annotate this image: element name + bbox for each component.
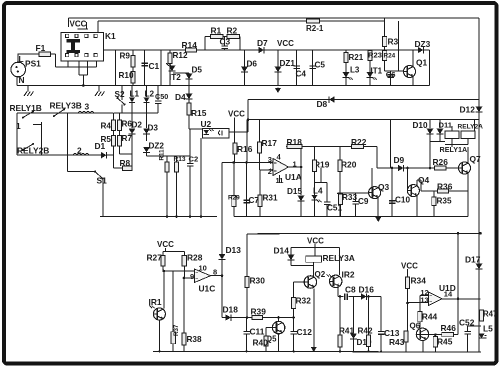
svg-text:RELY3A: RELY3A [323, 253, 355, 263]
svg-text:IR2: IR2 [342, 270, 355, 280]
svg-text:3: 3 [85, 102, 90, 112]
svg-text:DZ1: DZ1 [280, 59, 296, 68]
svg-text:C9: C9 [358, 197, 369, 206]
svg-text:RELY2B: RELY2B [17, 146, 49, 156]
svg-text:R2: R2 [227, 26, 238, 36]
svg-text:D8: D8 [317, 99, 328, 109]
svg-text:VCC: VCC [157, 240, 174, 249]
svg-text:R44: R44 [422, 312, 438, 322]
svg-text:R11: R11 [159, 149, 166, 161]
svg-text:R8: R8 [120, 158, 131, 168]
svg-text:R35: R35 [437, 197, 452, 206]
svg-text:1: 1 [16, 121, 21, 131]
svg-text:R4: R4 [101, 122, 112, 131]
svg-text:C2: C2 [189, 155, 199, 164]
svg-text:R7: R7 [122, 134, 133, 143]
svg-text:D7: D7 [257, 38, 268, 48]
svg-text:D14: D14 [274, 246, 290, 256]
svg-text:L2: L2 [145, 90, 155, 99]
svg-text:C51: C51 [327, 204, 342, 213]
svg-text:R39: R39 [251, 307, 267, 317]
svg-text:2: 2 [268, 167, 272, 176]
svg-text:L: L [19, 54, 24, 64]
svg-text:R26: R26 [433, 157, 449, 167]
svg-text:D13: D13 [226, 245, 242, 255]
svg-text:9: 9 [190, 272, 194, 281]
svg-text:D5: D5 [192, 65, 203, 74]
svg-text:R40: R40 [253, 338, 269, 348]
svg-text:R28: R28 [187, 253, 203, 263]
svg-text:L3: L3 [350, 66, 360, 75]
svg-text:D12: D12 [460, 105, 476, 115]
svg-text:VCC: VCC [70, 19, 87, 28]
svg-text:R15: R15 [191, 108, 207, 118]
svg-text:D10: D10 [413, 121, 428, 130]
svg-text:Q7: Q7 [470, 154, 482, 164]
svg-text:R34: R34 [411, 276, 427, 286]
svg-text:VCC: VCC [401, 261, 418, 270]
svg-text:R17: R17 [262, 138, 278, 148]
svg-text:C12: C12 [297, 327, 313, 337]
svg-text:R2-1: R2-1 [306, 24, 324, 33]
svg-text:D17: D17 [465, 255, 481, 265]
svg-text:R38: R38 [187, 335, 202, 344]
svg-text:C4: C4 [296, 70, 307, 79]
svg-text:S1: S1 [97, 176, 108, 186]
svg-text:Q1: Q1 [416, 58, 428, 68]
svg-text:D2: D2 [132, 121, 143, 130]
svg-text:C8: C8 [345, 285, 356, 295]
svg-text:R3: R3 [388, 36, 399, 46]
svg-text:RELY2A: RELY2A [458, 124, 484, 131]
svg-text:C5: C5 [315, 61, 326, 70]
svg-text:Q2: Q2 [315, 270, 326, 279]
svg-text:R16: R16 [237, 144, 253, 154]
svg-text:R46: R46 [441, 323, 457, 333]
svg-text:R31: R31 [263, 194, 278, 203]
svg-text:RELY1A: RELY1A [440, 145, 468, 154]
svg-text:2: 2 [77, 146, 82, 156]
svg-text:R36: R36 [437, 182, 453, 192]
svg-text:R47: R47 [483, 310, 497, 319]
svg-text:R14: R14 [182, 40, 198, 50]
svg-text:C50: C50 [155, 92, 168, 101]
svg-text:N: N [19, 75, 25, 85]
svg-text:S2: S2 [115, 90, 125, 99]
svg-text:RELY3B: RELY3B [50, 101, 82, 111]
svg-text:L1: L1 [130, 90, 140, 99]
svg-text:Q6: Q6 [410, 322, 421, 331]
svg-text:R22: R22 [351, 137, 367, 147]
svg-text:R18: R18 [287, 137, 303, 147]
svg-text:PS1: PS1 [25, 58, 41, 68]
svg-text:R42: R42 [358, 327, 373, 336]
svg-text:IT2: IT2 [169, 73, 181, 82]
svg-text:D9: D9 [394, 155, 405, 165]
svg-text:L5: L5 [483, 324, 493, 334]
svg-text:U1C: U1C [199, 284, 216, 294]
svg-text:C11: C11 [250, 327, 265, 337]
svg-text:13: 13 [420, 295, 428, 304]
svg-text:R27: R27 [147, 253, 163, 263]
svg-text:R10: R10 [119, 71, 134, 80]
svg-text:R30: R30 [250, 276, 266, 286]
svg-text:D11: D11 [439, 121, 453, 130]
svg-text:R32: R32 [296, 296, 312, 306]
svg-text:DZ2: DZ2 [149, 142, 165, 151]
svg-text:R5: R5 [101, 135, 112, 144]
svg-text:U2: U2 [201, 119, 212, 129]
svg-text:R13: R13 [174, 156, 186, 163]
svg-text:D3: D3 [148, 124, 159, 133]
svg-text:R20: R20 [341, 160, 357, 170]
svg-text:D15: D15 [287, 187, 302, 196]
svg-text:U1A: U1A [285, 172, 302, 182]
svg-text:8: 8 [213, 268, 217, 277]
svg-text:VCC: VCC [277, 39, 294, 48]
svg-text:R37: R37 [173, 324, 180, 336]
svg-text:R9: R9 [120, 51, 131, 60]
svg-text:D6: D6 [247, 60, 258, 69]
svg-text:R43: R43 [389, 337, 405, 347]
svg-text:RELY1B: RELY1B [10, 103, 42, 113]
svg-text:VCC: VCC [307, 236, 324, 245]
svg-text:VCC: VCC [228, 109, 245, 118]
svg-text:D16: D16 [359, 285, 375, 295]
svg-text:3: 3 [268, 155, 272, 164]
svg-text:R1: R1 [211, 26, 222, 36]
svg-text:R21: R21 [349, 53, 364, 62]
svg-text:R29: R29 [228, 195, 240, 202]
svg-text:IT1: IT1 [371, 67, 383, 76]
svg-text:R45: R45 [437, 337, 453, 347]
svg-text:U1D: U1D [439, 283, 456, 293]
svg-text:R24: R24 [384, 53, 396, 60]
svg-text:DZ3: DZ3 [415, 39, 431, 49]
svg-text:C10: C10 [395, 196, 410, 205]
svg-text:D18: D18 [223, 305, 239, 315]
svg-text:C1: C1 [149, 61, 160, 71]
svg-text:K1: K1 [105, 31, 116, 41]
svg-text:D4: D4 [175, 92, 186, 102]
svg-text:Q3: Q3 [378, 182, 390, 192]
svg-text:R23: R23 [368, 51, 382, 60]
svg-text:L4: L4 [313, 187, 323, 196]
svg-text:IR1: IR1 [149, 297, 162, 307]
